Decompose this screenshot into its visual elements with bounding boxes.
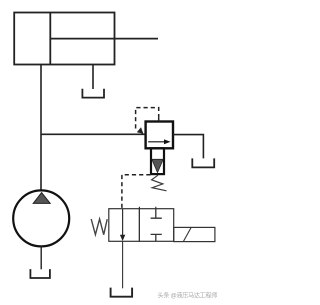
port stubs on V2 top edge <box>139 207 155 209</box>
flow arrow inside V1 <box>148 141 165 143</box>
wire: cylinder cap-end down to pump <box>40 65 42 191</box>
wire: pump suction to tank T3 <box>40 246 42 269</box>
directional valve V2 right position box <box>139 209 173 242</box>
tank T3 (below pump) <box>30 269 50 278</box>
directional valve V2 left position box <box>109 209 140 242</box>
pilot port stub on top of V1 <box>158 117 160 121</box>
pilot line arrowhead at inlet junction <box>137 127 144 134</box>
tank T2 (right of V1) <box>192 158 214 167</box>
poppet housing below V1 <box>151 148 164 174</box>
wire: V2 drain to tank T4 <box>122 241 124 288</box>
spring of V1 (zigzag below poppet) <box>152 175 167 191</box>
sequence valve V1 body <box>146 122 173 149</box>
drain pilot line (dashed) from spring chamber to valve V2 <box>122 175 151 209</box>
blocked port (top T) in V2 right box <box>151 209 162 219</box>
return spring of V2 (W zigzag, left side) <box>91 219 107 235</box>
blocked port (bottom T) in V2 right box <box>151 234 162 241</box>
pump P1 outlet triangle (filled) <box>33 193 50 204</box>
wire: rod-end branch down to tank T1 <box>92 65 94 90</box>
poppet cone (filled triangle) <box>152 159 163 172</box>
flow path arrow in V2 left box <box>122 209 124 237</box>
wire: pressure branch to sequence valve V1 <box>41 133 146 135</box>
tank T4 (below V2) <box>111 288 133 297</box>
wire: V1 outlet to tank T2 <box>173 135 203 159</box>
pump P1 circle <box>13 190 69 246</box>
pilot line (dashed) from inlet over the top of V1 <box>136 108 159 129</box>
cylinder C1 rod <box>50 38 158 40</box>
svg-text:头条 @液压马达工程师: 头条 @液压马达工程师 <box>158 292 218 300</box>
cylinder C1 piston <box>49 13 51 65</box>
solenoid of V2 (box with slash, right side) <box>174 227 215 241</box>
solenoid slash <box>183 227 191 241</box>
cylinder C1 body <box>14 13 114 65</box>
tank T1 (under cylinder rod end) <box>82 89 104 98</box>
